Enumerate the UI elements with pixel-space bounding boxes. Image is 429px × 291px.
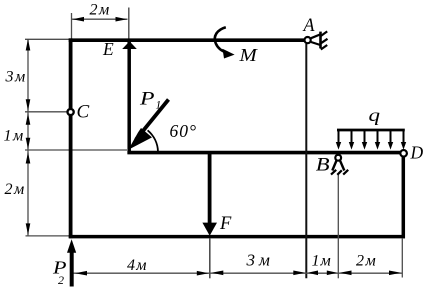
dimension arrows left 2m [26,152,31,164]
dimension arrows bottom 4m [75,271,87,276]
beam: middle horizontal member [127,151,400,155]
wire: thin extension line at middle level y=150 [25,149,127,151]
wire: top dimension extension line x=71.5 [71,13,73,39]
beam: right vertical member below D [402,157,406,238]
svg-text:E: E [102,39,114,59]
support A: hatch strokes [321,31,327,36]
dimension arrows left 3m [26,39,31,51]
svg-text:C: C [77,102,90,123]
beam: bottom horizontal member [69,235,405,239]
svg-text:P: P [139,90,155,110]
force P2: upward arrow below bottom-left corner [70,250,74,287]
wire: thin extension line left of bottom-left corner y=236 [26,235,70,237]
wire: thin extension line at C level y=112 [25,111,67,113]
dimension arrows left 1m [26,113,31,125]
wire: extension below D x=402.3 [401,238,403,278]
load q: distributed load bar [337,129,405,132]
dimension arrows bottom 3m [211,271,223,276]
beam: top horizontal member [69,38,304,42]
support B: pin circle [335,155,341,161]
svg-text:2м: 2м [90,2,111,19]
svg-text:3м: 3м [5,69,27,86]
wire: top dimension line y=19.2 [72,18,128,20]
node C: ring on left member [68,109,74,115]
svg-text:F: F [219,214,232,234]
wire: extension below B x=338.3 [337,175,339,278]
svg-text:D: D [410,143,424,163]
support A: link wedge [311,34,320,38]
force F: downward arrow from middle beam to bottom beam [208,153,212,224]
svg-text:60°: 60° [170,121,198,141]
node: left vertical dimension line x=28 [27,40,29,236]
dimension arrows bottom 2m [340,271,352,276]
force E: upward arrowhead at top of E column [122,41,137,49]
wire: top dimension extension line x=128.8 above E [128,8,130,39]
dimension arrows top 2m [72,17,84,22]
svg-text:4м: 4м [127,257,148,274]
beam: left vertical member [69,38,73,238]
svg-text:M: M [238,45,258,65]
svg-text:1м: 1м [4,128,25,145]
wire: thin member from A down to bottom dimension x=306.3 [305,44,307,278]
load q arrows [339,130,404,144]
support A: pin circle [305,37,311,43]
node D: circle [400,150,407,157]
wire: thin extension line left of top-left corner y=39.5 [25,38,69,40]
svg-text:q: q [369,105,381,125]
svg-text:2: 2 [58,273,64,287]
svg-text:A: A [302,16,316,36]
support B: hatches [331,170,336,175]
svg-text:1: 1 [156,99,162,111]
angle arc 60deg [148,130,158,152]
svg-text:2м: 2м [5,181,26,198]
svg-text:B: B [316,154,330,175]
support B: triangle [332,161,336,171]
moment M: curved arrow crossing top beam [215,27,228,53]
beam: E column vertical member [127,40,131,154]
support A: wall bar [319,32,322,49]
svg-text:3м: 3м [246,250,274,269]
svg-text:2м: 2м [356,253,377,270]
dimension arrows bottom 1m [308,271,319,276]
force P1: inclined arrow at 60deg [136,100,169,140]
svg-text:1м: 1м [312,253,332,270]
wire: bottom dimension line y=272.8 [73,272,402,274]
wire: extension below F x=209.8 [209,238,211,278]
